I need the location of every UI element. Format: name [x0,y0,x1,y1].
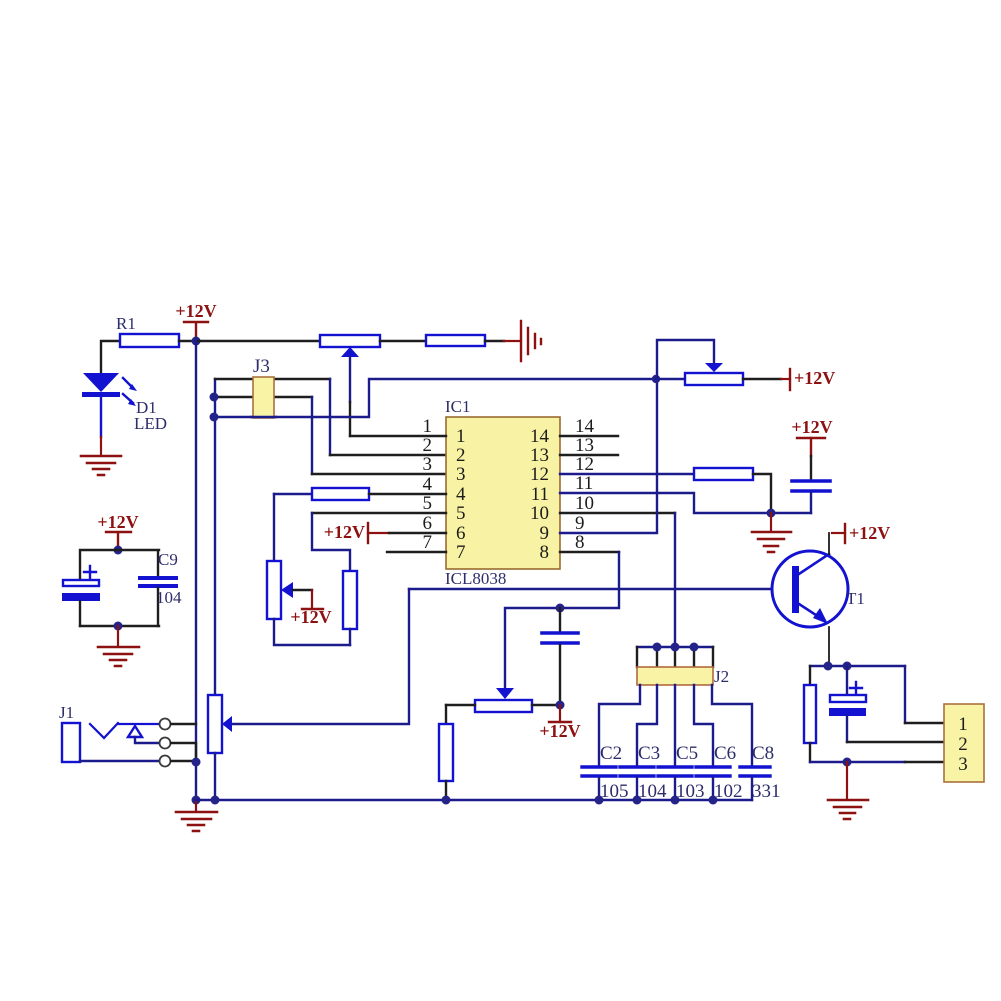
svg-text:7: 7 [423,532,433,553]
wire: J3 row B to pin3 [214,396,312,398]
capacitor C2 [582,767,616,776]
wire: output top rail [810,665,905,667]
node: J1 junction [192,758,201,767]
svg-text:8: 8 [575,532,585,553]
wire: J2 leg 3 to C5 [674,685,676,766]
wire: J1 contact 1 to vertical [171,723,196,725]
node: R3/C junction [767,509,776,518]
node: ground bus left [192,796,201,805]
IC1 pin 5 [312,512,446,514]
J1 tip contact [90,723,159,738]
svg-text:J1: J1 [59,703,74,722]
wire: J2 leg 5 to C8 [712,685,752,766]
svg-text:+12V: +12V [849,523,890,543]
svg-text:104: 104 [638,781,667,802]
ground (bottom left) [195,800,197,811]
power +12V terminal (T1 collector) [828,533,830,554]
node: R1/+12V junction [192,337,201,346]
wire: J2 leg 2 to C3 [637,685,657,766]
svg-text:6: 6 [423,513,433,534]
wire: J2 leg 1 to C2 [599,685,640,766]
svg-text:8: 8 [540,542,550,563]
svg-text:3: 3 [456,464,466,485]
potentiometer RP5 (left vertical) [273,494,275,561]
svg-text:10: 10 [530,503,549,524]
svg-text:13: 13 [575,435,594,456]
svg-text:10: 10 [575,493,594,514]
LED arrows [123,378,133,403]
IC1 pin 1 [350,435,446,437]
ground (output) [846,762,848,799]
svg-text:LED: LED [134,414,167,433]
power +12V terminal (RP3) [559,705,561,722]
svg-text:9: 9 [575,513,585,534]
ground (top middle, rotated) [521,321,541,361]
capacitor C11 (right) [792,481,830,491]
IC1 pin 6 with +12V terminal [367,523,369,543]
svg-text:14: 14 [575,416,595,437]
svg-text:14: 14 [530,426,550,447]
wire: RP1 to R2 [380,340,426,342]
capacitor C5 [658,767,692,776]
resistor R2 (top) [426,335,485,346]
capacitor C9 [140,578,176,586]
svg-text:2: 2 [958,734,968,755]
resistor R6 (pin5 vertical) [343,571,357,629]
svg-text:1: 1 [423,416,433,437]
connector J4 output 1 2 3 [944,704,984,782]
IC1 pin 13 stub [560,454,618,456]
svg-text:C9: C9 [158,550,178,569]
wire: output pin2 [847,741,944,743]
svg-text:4: 4 [456,484,466,505]
svg-text:7: 7 [456,542,466,563]
svg-text:T1: T1 [846,589,865,608]
svg-text:1: 1 [958,714,968,735]
capacitor C3 [620,767,654,776]
node: pin8 net capacitor tap [556,604,565,613]
wire: long vertical from +12V node down to J1 [195,341,197,800]
wire: C9 block bottom rail [80,625,159,627]
potentiometer RP1 (top, wiper up) [320,335,380,347]
resistor R1 [120,334,179,347]
wire: +12V rail to pot RP1 [196,340,320,342]
svg-text:11: 11 [575,473,593,494]
svg-text:9: 9 [540,523,550,544]
capacitor C8 [740,767,770,776]
wire: output pin1 [904,666,906,723]
svg-text:C2: C2 [600,743,622,764]
wire: J1 contact 3 [171,760,196,762]
wire: T1 base line [409,588,792,590]
potentiometer RP3 (bottom mid, wiper down) [496,688,514,699]
svg-text:+12V: +12V [539,721,580,741]
node: J3 row B [210,393,219,402]
svg-text:ICL8038: ICL8038 [445,569,506,588]
svg-text:3: 3 [423,454,433,475]
ground (under C9 block) [117,626,119,646]
svg-text:+12V: +12V [97,512,138,532]
svg-text:R1: R1 [116,314,136,333]
node: RP4 bottom [211,796,220,805]
node: pin9 net / rheostat RP2 [652,375,660,383]
J1 terminal circles [160,719,171,730]
wire: R1 to +12V node [179,340,196,342]
svg-text:C8: C8 [752,743,774,764]
IC1 pin 10 [560,512,675,514]
svg-text:1: 1 [456,426,466,447]
wire: C9 block top rail [80,550,159,580]
wire: R2 to ground [485,340,504,342]
node: RP3/+12V junction [556,701,565,710]
resistor R5 (bottom mid vertical) [445,705,447,724]
resistor R3 (pin12) [694,468,753,480]
wire: J2 top bus [637,646,713,648]
connector J2 [637,667,713,685]
wire: output bottom rail / pin3 [810,761,905,763]
IC1 pin 12 [560,473,694,475]
svg-text:5: 5 [456,503,466,524]
transistor T1 [772,551,848,627]
svg-text:6: 6 [456,523,466,544]
wire: LED anode to R1 left [101,341,120,373]
node: C9 block top [114,546,123,555]
wire: J1 contact 2 [171,743,196,762]
IC1 pin 4 [274,493,312,495]
wire: T1 emitter down [828,627,830,666]
wire: RP5 bottom loop to R6 [274,619,350,645]
capacitor C10 electrolytic (left) [84,566,96,578]
svg-text:12: 12 [575,454,594,475]
wire: J3 vertical feed [214,379,216,695]
J1 switch contact [128,726,142,737]
wire: J2 leg 4 to C6 [694,685,713,766]
IC1 pin 8 [560,551,619,553]
svg-text:3: 3 [958,754,968,775]
svg-text:IC1: IC1 [445,397,471,416]
node: J3 row C [210,413,219,422]
svg-text:+12V: +12V [175,301,216,321]
IC1 pin 11 [560,493,811,513]
connector J3 [253,377,274,418]
node: J2 bus junctions [653,643,662,652]
wire: J3 row C overlay [251,416,276,418]
svg-text:+12V: +12V [324,522,365,542]
svg-text:J3: J3 [253,356,270,377]
svg-text:2: 2 [456,445,466,466]
wire: base-line corner down to RP4 wiper [232,589,409,724]
svg-text:+12V: +12V [794,368,835,388]
wire: bottom ground bus [196,799,752,801]
svg-text:104: 104 [156,588,182,607]
svg-text:J2: J2 [714,667,729,686]
ground (mid right) [770,513,772,531]
svg-text:12: 12 [530,464,549,485]
IC1 pin 9 [560,379,657,533]
svg-text:2: 2 [423,435,433,456]
node: C9 block bottom [114,622,123,631]
capacitor C12 electrolytic (output) [846,666,848,693]
wire: J3 row A to pin2 [215,378,330,380]
svg-text:+12V: +12V [290,607,331,627]
potentiometer RP4 (bottom left vertical) [208,695,222,753]
ground (under LED) [100,437,102,455]
svg-text:C3: C3 [638,743,660,764]
power +12V terminal (RP5 wiper) [311,590,313,609]
LED D1 [83,373,119,392]
IC1 pin 7 stub [387,551,446,553]
svg-text:+12V: +12V [791,417,832,437]
capacitor C13 (mid) [559,608,561,631]
svg-text:4: 4 [423,474,433,495]
svg-text:105: 105 [600,781,629,802]
connector J1 jack body [62,723,80,762]
wire: J1 sleeve to contact 3 [80,760,159,762]
svg-text:103: 103 [676,781,705,802]
potentiometer RP2 (top right, wiper loop) [656,378,685,380]
svg-text:5: 5 [423,493,433,514]
IC U1 ICL8038 body [446,417,560,569]
power +12V terminal (top left) [184,322,208,340]
svg-text:331: 331 [752,781,781,802]
wire: J3 row C to pin9/pin12 net [214,379,656,417]
svg-text:C5: C5 [676,743,698,764]
svg-text:C6: C6 [714,743,736,764]
resistor R4 (output) [809,666,811,685]
svg-text:11: 11 [531,484,549,505]
svg-text:102: 102 [714,781,743,802]
node: R5 bottom [442,796,451,805]
power +12V terminal (RP2 right) [743,378,781,380]
IC1 pin 14 stub [560,435,618,437]
svg-text:13: 13 [530,445,549,466]
capacitor C6 [696,767,730,776]
